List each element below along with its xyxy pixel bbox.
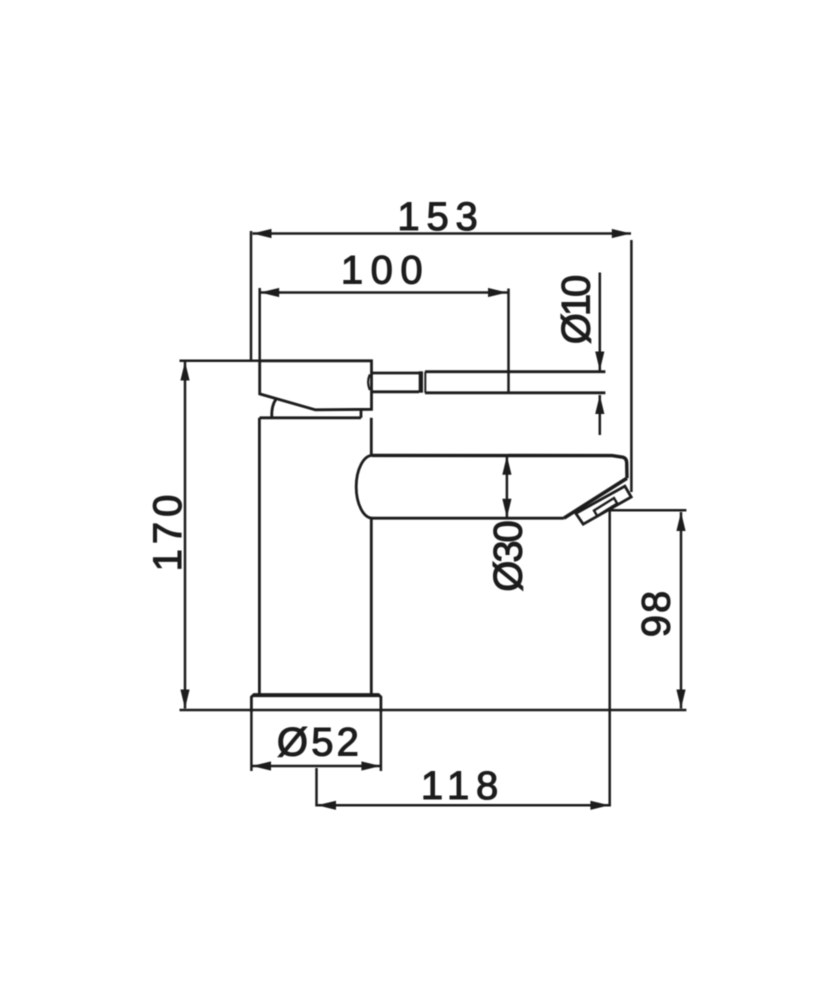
extension line 98 top (spout outlet) (610, 509, 686, 512)
dimension O10 arrows (555, 273, 605, 436)
dimension O52 under base (251, 721, 381, 771)
aerator insert (594, 498, 617, 516)
body right edge upper (cap to spout) (370, 418, 373, 456)
dimension 98 vertical right (635, 512, 686, 709)
extension line 118 left (faucet centerline) (315, 768, 318, 807)
svg-text:100: 100 (341, 249, 430, 293)
pipe socket arc (368, 375, 370, 391)
dimension 153 top horizontal (253, 195, 632, 239)
svg-text:170: 170 (146, 490, 190, 572)
svg-text:153: 153 (397, 195, 484, 239)
spout bottom edge (372, 517, 564, 520)
spray pipe section 2 bottom (425, 391, 605, 394)
dimension 118 bottom (317, 764, 610, 810)
extension line 153 left (from base left edge) (250, 231, 253, 361)
svg-text:Ø30: Ø30 (486, 521, 530, 591)
dimension 170 vertical left (146, 362, 190, 709)
aerator housing (576, 486, 631, 524)
cartridge cap line (top of body) (260, 416, 362, 419)
svg-text:98: 98 (635, 589, 679, 638)
extension line 118 right (outlet position) (608, 510, 611, 806)
spout top edge with rounded right corner (372, 455, 627, 478)
extension line bottom mounting surface (shared 170 and 98) (180, 709, 687, 712)
extension line O52 right (380, 712, 383, 771)
extension line 153 right (outlet rightmost) (630, 240, 633, 492)
spray pipe section 1 bottom (372, 390, 420, 393)
extension line 170 top (180, 360, 260, 363)
spray pipe section 2 top (425, 370, 605, 373)
svg-text:118: 118 (421, 764, 505, 808)
spout chamfered outlet face (564, 478, 627, 518)
svg-text:Ø10: Ø10 (555, 276, 599, 344)
svg-text:Ø52: Ø52 (277, 721, 362, 765)
handle bottom step (360, 410, 363, 418)
extension line 100 left (258, 288, 261, 361)
dimension 100 (260, 249, 507, 298)
extension line 100 right (pipe end) (507, 289, 510, 394)
spray pipe section 1 top (372, 372, 420, 375)
pipe joint ring (419, 371, 426, 393)
body left edge (258, 418, 261, 694)
handle lever outline (260, 361, 372, 410)
body right edge lower (spout to base) (370, 518, 373, 694)
lever pivot arc (272, 399, 276, 417)
base cap outline (251, 695, 381, 713)
spout left rounded end (356, 455, 372, 518)
extension line O52 left (250, 712, 253, 771)
dimension O30 double arrow (486, 456, 530, 592)
